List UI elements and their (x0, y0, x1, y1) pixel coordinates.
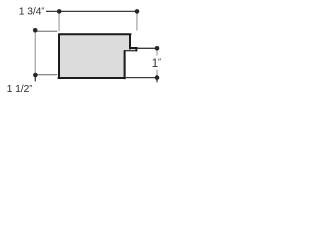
height dim bottom endpoint dot (33, 73, 38, 78)
height dim bottom extension line (35, 74, 57, 76)
width dim left extension line (58, 11, 60, 31)
svg-text:1″: 1″ (152, 57, 161, 70)
height dim top extension line (35, 30, 57, 32)
moulding profile body fill (58, 33, 137, 79)
width dim right endpoint dot (135, 9, 140, 14)
rabbet dim bottom extension line (126, 77, 157, 79)
rabbet dimension line lower segment (156, 70, 158, 76)
rabbet dim top endpoint dot (155, 46, 160, 51)
rabbet dim bottom endpoint dot (155, 75, 160, 80)
width dimension line (1 3/4") (46, 10, 137, 12)
rabbet dim top extension line (137, 47, 157, 49)
rabbet dimension line upper segment (156, 51, 158, 56)
moulding profile outline (left, top, right, lip top, lip right, bottom, rabbet inner wall) (58, 34, 136, 78)
width dim right extension line (136, 11, 138, 30)
svg-text:1 1/2″: 1 1/2″ (7, 83, 33, 95)
rabbet lip underside edge (124, 50, 136, 52)
svg-text:1 3/4″: 1 3/4″ (19, 5, 45, 17)
width dim left endpoint dot (57, 9, 62, 14)
rabbet dim overshoot stub (156, 80, 158, 83)
height dim top endpoint dot (33, 28, 38, 33)
height dim leader to label (34, 75, 36, 81)
height dimension line (1 1/2") (34, 30, 36, 75)
